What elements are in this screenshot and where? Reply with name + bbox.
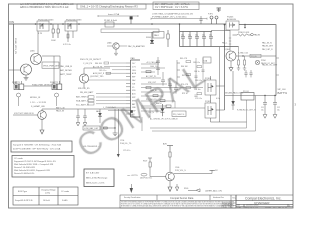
capacitor C_out1	[261, 96, 267, 119]
svg-text:PACIN: PACIN	[254, 34, 261, 37]
svg-text:10u: 10u	[195, 34, 198, 36]
watermark COMPAL outline	[70, 54, 213, 165]
svg-text:10u: 10u	[209, 34, 212, 36]
svg-text:R509: R509	[184, 188, 188, 190]
svg-text:Checked: Checked	[223, 204, 229, 206]
svg-text:Resist=10 4065x3 4%: Resist=10 4065x3 4%	[14, 172, 34, 175]
svg-text:PAD1: PAD1	[154, 34, 159, 37]
svg-text:CHARGER: CHARGER	[254, 201, 270, 205]
svg-text:Drawn: Drawn	[223, 206, 227, 208]
svg-text:PR_CHG 1%: PR_CHG 1%	[146, 99, 157, 101]
svg-text:D45/PCB_VOL: D45/PCB_VOL	[140, 177, 152, 179]
capacitor C_out2	[273, 96, 280, 119]
svg-text:-08- TM-EM-DR --: -08- TM-EM-DR --	[83, 146, 99, 148]
svg-text:AC_OK_P4: AC_OK_P4	[93, 65, 102, 68]
svg-text:BATT%: BATT%	[278, 91, 288, 95]
wire SRN row	[141, 107, 205, 109]
wire emitter down	[25, 75, 27, 78]
svg-text:R_PAC 0.05: R_PAC 0.05	[238, 51, 248, 54]
aux component rows center	[180, 58, 202, 100]
svg-text:17: 17	[275, 207, 277, 209]
svg-text:PACK_IN: PACK_IN	[56, 110, 65, 113]
box LOW BATT	[83, 126, 100, 130]
junction	[244, 27, 246, 29]
wire base left	[9, 69, 21, 71]
svg-text:C63 0.1u: C63 0.1u	[193, 62, 200, 64]
svg-text:PCB_VOL_%: PCB_VOL_%	[175, 170, 186, 172]
svg-text:LOSS: PADL-C/O-ADAPTER=0.05/0.: LOSS: PADL-C/O-ADAPTER=0.05/0.23/0.11V	[152, 13, 194, 16]
svg-text:CC mode: CC mode	[14, 158, 24, 160]
svg-text:PCA_LVL_7%: PCA_LVL_7%	[120, 142, 132, 145]
connector J battery 2	[50, 81, 62, 97]
svg-text:20.7: 20.7	[132, 63, 135, 65]
svg-text:VOUT NOT USED IN S5: VOUT NOT USED IN S5	[14, 113, 34, 115]
svg-text:twA=0.57·0.334/270/297.9 (KHz): twA=0.57·0.334/270/297.9 (KHz) PWM=1.2MH…	[20, 3, 74, 6]
secret data table	[120, 195, 236, 208]
wire	[53, 56, 55, 81]
svg-text:Tuesday, July 26, 2011: Tuesday, July 26, 2011	[243, 207, 258, 209]
svg-text:Size: Size	[237, 205, 240, 207]
diode D30	[156, 102, 164, 116]
wire	[41, 109, 43, 111]
svg-text:PR34: PR34	[261, 60, 266, 62]
ground	[24, 78, 29, 81]
ground hatch	[113, 133, 118, 136]
resistor vert 1	[237, 56, 240, 70]
svg-text:CC mode: CC mode	[61, 191, 69, 193]
resistor base divider	[143, 158, 152, 177]
junction	[244, 24, 246, 26]
resistor sense box	[241, 91, 254, 100]
resistor boxes row	[88, 96, 94, 98]
junction	[179, 23, 181, 25]
svg-text:Q24 PNP_TR5: Q24 PNP_TR5	[90, 76, 104, 78]
wire with arrow	[117, 109, 119, 154]
junction	[224, 46, 225, 47]
connector J battery 1	[12, 81, 24, 97]
wire down	[41, 119, 43, 130]
bracket measure 1	[98, 15, 138, 17]
resistor PR301	[233, 32, 261, 37]
svg-text:PR_CHG 1%: PR_CHG 1%	[173, 114, 184, 116]
box VR5X	[42, 62, 60, 68]
svg-text:R70 4.7K: R70 4.7K	[181, 84, 189, 86]
junction	[224, 24, 226, 26]
capacitor bank rails	[180, 32, 239, 47]
svg-text:Charging Voltage: Charging Voltage	[41, 189, 56, 192]
dc jack PJP1	[208, 8, 221, 24]
transistor Q306b	[21, 64, 32, 75]
fuse PF1	[104, 20, 117, 27]
BOM table	[13, 187, 78, 205]
note box GA6	[77, 4, 146, 9]
wire stub conn2	[56, 97, 58, 106]
ground arrow	[40, 130, 44, 134]
wire BATT rail	[225, 95, 276, 97]
svg-text:C_OK_P4: C_OK_P4	[83, 63, 93, 65]
approval boxes	[222, 203, 236, 208]
svg-text:Q3A5: Q3A5	[107, 42, 112, 45]
svg-text:SCL_BATT_B: SCL_BATT_B	[76, 103, 89, 106]
svg-text:PQ307: PQ307	[205, 101, 211, 103]
wire collector row	[236, 55, 276, 57]
svg-text:PAD_USB_M: PAD_USB_M	[60, 65, 72, 68]
wire base	[13, 114, 38, 116]
capacitor mini top	[199, 16, 202, 24]
wires into IC upper-left rows	[89, 62, 126, 80]
mosfet PQ2	[65, 18, 82, 31]
svg-text:BAT: BAT	[132, 103, 135, 106]
small caps column	[156, 57, 180, 94]
svg-text:R64 10K: R64 10K	[181, 66, 188, 68]
svg-text:BATT_TEMP: BATT_TEMP	[60, 73, 72, 76]
big region box outer	[152, 96, 256, 132]
svg-text:PR_05: PR_05	[251, 56, 257, 58]
svg-text:C11: C11	[261, 107, 264, 109]
capacitor PC1	[181, 32, 185, 47]
svg-text:SDA_BATT_B: SDA_BATT_B	[76, 99, 89, 102]
mosfet block right B	[205, 101, 216, 118]
wire gate down	[211, 30, 230, 51]
svg-text:4.7K 0.1u: 4.7K 0.1u	[63, 44, 71, 46]
junction	[274, 95, 275, 96]
svg-text:C79 4.7u: C79 4.7u	[123, 150, 130, 152]
svg-text:Sanyo/4 S 728/1998 : CH. 80%/: Sanyo/4 S 728/1998 : CH. 80%/Delay : 70±…	[13, 143, 61, 146]
svg-text:A3V: A3V	[163, 142, 167, 145]
svg-text:C72 10u: C72 10u	[194, 89, 200, 91]
transistor Q24 pnp	[79, 74, 104, 83]
svg-text:10u: 10u	[188, 34, 191, 36]
diode D31	[231, 71, 256, 111]
svg-text:PAC_L: PAC_L	[222, 41, 228, 44]
junction	[78, 23, 80, 25]
svg-text:twB=0.4·786/298/303.4 70KHz: twB=0.4·786/298/303.4 70KHz tRC=4.7K·0.1…	[20, 6, 69, 9]
junction	[50, 23, 52, 25]
right side labels	[146, 61, 159, 106]
wire emitter	[169, 181, 171, 187]
wire between fets	[211, 47, 247, 122]
svg-text:PJBATT2: PJBATT2	[50, 81, 58, 84]
ground arrow	[229, 68, 233, 71]
transistor Q31	[31, 105, 46, 119]
svg-text:PR301 3.01K: PR301 3.01K	[238, 32, 250, 34]
svg-text:AC_SET_PL: AC_SET_PL	[146, 75, 156, 78]
svg-text:C506: C506	[175, 167, 179, 169]
svg-text:S_04/BAT_LED: S_04/BAT_LED	[31, 105, 46, 108]
svg-text:PAC_DET_N: PAC_DET_N	[262, 48, 273, 51]
ground arrow	[168, 187, 172, 191]
junction	[264, 95, 265, 96]
svg-text:With Failsafe BOM: 1998 -- Co: With Failsafe BOM: 1998 -- Compal=5.328	[14, 163, 54, 166]
resistor to junction	[103, 127, 109, 129]
svg-text:100K: 100K	[51, 40, 56, 42]
svg-text:3.0A%: 3.0A%	[62, 199, 68, 202]
mosfet block right A	[205, 78, 216, 95]
svg-text:CHG_B2: CHG_B2	[150, 90, 157, 92]
notes box small	[11, 141, 72, 152]
battery rail	[42, 108, 130, 110]
transistor PQ304	[224, 49, 236, 61]
wire	[114, 109, 116, 128]
diode PD1	[146, 32, 154, 44]
svg-text:Resist=7.10 4567x328: Resist=7.10 4567x328	[14, 166, 36, 169]
title block	[236, 195, 293, 208]
svg-text:LOW_BAT_DET: LOW_BAT_DET	[84, 127, 99, 130]
note box OV/CV	[153, 2, 199, 10]
wire	[84, 68, 110, 74]
notes box CC mode	[12, 156, 74, 178]
svg-text:BAT_DET&B: BAT_DET&B	[60, 69, 72, 72]
node VIN	[9, 20, 14, 24]
junction	[35, 23, 37, 25]
svg-text:C704: C704	[120, 140, 124, 142]
big region box inner	[150, 100, 247, 128]
resistor PR21 divider	[51, 24, 59, 42]
junction	[114, 127, 115, 128]
svg-text:CV = 856*%mAh ; CV = 6.37%: CV = 856*%mAh ; CV = 6.37%	[155, 6, 189, 9]
svg-text:R507: R507	[143, 160, 147, 162]
svg-text:E7: 3 A 0.46V: E7: 3 A 0.46V	[86, 172, 100, 175]
svg-text:16.8±xV: 16.8±xV	[43, 200, 51, 202]
svg-text:Compal Electronics, Inc.: Compal Electronics, Inc.	[245, 196, 282, 200]
regulator box U5	[203, 57, 211, 63]
svg-text:R_PACIN_OC_DET_N: R_PACIN_OC_DET_N	[237, 108, 256, 111]
svg-text:Support=0.25 5V/2.5 4V/Charger: Support=0.25 5V/2.5 4V/Charger/S 5Vx5~3%	[14, 160, 56, 163]
wire VIN rail	[14, 23, 226, 25]
svg-text:C41 0.1u: C41 0.1u	[99, 70, 106, 72]
svg-text:With Failsafe BO-4095, Suppor: With Failsafe BO-4095, Support=5.328	[14, 169, 51, 172]
svg-text:Q305: Q305	[30, 51, 35, 53]
transistor Q_adp	[107, 42, 145, 56]
svg-text:Eng: Eng	[230, 206, 233, 208]
wire B+ drop	[239, 25, 276, 96]
svg-text:GA6_1 = 16~33 Charging/Dischar: GA6_1 = 16~33 Charging/Discharging Reaso…	[80, 5, 138, 9]
svg-text:PQ301 AO4433: PQ301 AO4433	[38, 18, 54, 21]
svg-text:AO4407A: AO4407A	[227, 18, 236, 21]
svg-text:MODEL_IN: MODEL_IN	[30, 97, 41, 99]
svg-text:AL_CHG/B2_LPC 4.7K S_CMB_B: AL_CHG/B2_LPC 4.7K S_CMB_B	[150, 117, 178, 120]
svg-text:PACIN_DET: PACIN_DET	[262, 44, 274, 47]
svg-text:PAD: PAD	[131, 57, 136, 60]
svg-text:10u: 10u	[202, 34, 205, 36]
charger IC U1	[131, 57, 141, 117]
wire gate drop 1	[37, 31, 39, 54]
svg-text:LATER_ADJ_ON: LATER_ADJ_ON	[205, 189, 222, 192]
svg-text:R61 4.7K: R61 4.7K	[180, 58, 188, 60]
wire	[83, 83, 85, 88]
resistor gate PQ2	[63, 31, 73, 46]
transistor Q50 npn	[166, 167, 187, 181]
svg-text:Sanyo/4S 4L/3P 3.8L: Sanyo/4S 4L/3P 3.8L	[15, 200, 33, 202]
ground arrow above table	[175, 187, 178, 191]
box label	[250, 54, 261, 57]
svg-text:C12: C12	[277, 107, 280, 109]
junction	[62, 23, 64, 25]
svg-text:BB D-4 85d Recharge: BB D-4 85d Recharge	[86, 177, 108, 180]
svg-text:4.7u: 4.7u	[216, 98, 220, 100]
svg-text:4L/3P*5.328/1998 : GP* 80%*9/1: 4L/3P*5.328/1998 : GP* 80%*9/12Q : 10*±1…	[13, 148, 61, 151]
cap pair on battery rail	[76, 109, 87, 126]
power flag B+	[130, 16, 133, 24]
svg-text:VIN: VIN	[9, 20, 14, 24]
wire stub conn1	[18, 97, 20, 106]
svg-text:ICM_OUT: ICM_OUT	[148, 82, 157, 84]
svg-text:tPLH/PADL-B/ADP_19V = 4.74/0.2: tPLH/PADL-B/ADP_19V = 4.74/0.23/xx	[152, 15, 187, 18]
svg-text:36: 36	[282, 207, 284, 209]
power flag on rail	[130, 110, 133, 113]
svg-text:PQ304: PQ304	[224, 49, 230, 51]
left drop wire	[13, 24, 15, 84]
svg-text:Rev: Rev	[232, 198, 235, 200]
svg-text:10u: 10u	[277, 110, 280, 112]
svg-text:BOM Type: BOM Type	[18, 191, 27, 193]
bracket measure 2	[151, 18, 207, 20]
caps row small	[244, 70, 252, 77]
connector pad box	[153, 32, 164, 39]
svg-text:PL301 6.8uH: PL301 6.8uH	[104, 20, 117, 22]
svg-text:PR_B1: PR_B1	[243, 91, 249, 93]
svg-text:C66 1u: C66 1u	[194, 71, 200, 73]
svg-text:PAC_IN_N: PAC_IN_N	[262, 41, 272, 44]
capacitor PC4	[202, 32, 206, 47]
svg-text:C75 0.1u: C75 0.1u	[195, 98, 202, 100]
net arrow LATER_ADJ_ON	[184, 188, 222, 192]
svg-text:4.7%: 4.7%	[132, 66, 136, 68]
svg-text:Hardware Rev: Hardware Rev	[213, 196, 224, 199]
capacitor bank side wires	[180, 24, 225, 110]
pad circle	[255, 60, 260, 65]
notes box right of CC	[84, 169, 114, 187]
svg-text:ICL: ICL	[132, 87, 135, 89]
capacitor PC2	[188, 32, 192, 47]
svg-text:Compal Secret Data: Compal Secret Data	[170, 196, 194, 200]
svg-text:-xx- .0377%: -xx- .0377%	[127, 175, 138, 177]
svg-text:R34 4.7K_R5_DETECT: R34 4.7K_R5_DETECT	[80, 59, 102, 61]
bus rect	[101, 29, 159, 32]
svg-text:4.7K: 4.7K	[38, 33, 43, 35]
svg-text:PQ302 AO4433: PQ302 AO4433	[66, 18, 82, 21]
diode 6A04	[96, 109, 102, 123]
legal paragraph	[121, 200, 235, 207]
svg-text:J. R. L. + 3.3 R.W: J. R. L. + 3.3 R.W	[30, 102, 46, 104]
svg-text:Security Classification: Security Classification	[124, 196, 141, 199]
wire collector right	[174, 170, 212, 173]
svg-text:BAT54: BAT54	[156, 102, 161, 105]
svg-text:PACIN_OC_DET: PACIN_OC_DET	[262, 63, 278, 66]
IC pin labels	[132, 63, 137, 116]
svg-text:L_CHG 3.3uH: L_CHG 3.3uH	[103, 107, 116, 109]
svg-text:ACIN_DET_R: ACIN_DET_R	[93, 72, 105, 75]
svg-text:6A04: 6A04	[96, 110, 100, 113]
junction	[151, 23, 153, 25]
svg-text:CLK_N: CLK_N	[148, 112, 154, 114]
ground arrow filled	[130, 188, 133, 193]
IC right side wires and parts	[141, 64, 203, 111]
svg-text:(±1%): (±1%)	[45, 192, 50, 194]
svg-text:REF: REF	[132, 77, 135, 79]
wire base	[150, 176, 166, 178]
svg-text:PGND_VPCL_PS: PGND_VPCL_PS	[14, 38, 16, 55]
resistor vertical	[169, 152, 171, 157]
junction	[242, 55, 243, 56]
svg-text:BAT_TEMP_R: BAT_TEMP_R	[76, 95, 90, 98]
wire side column	[42, 56, 60, 84]
svg-text:RB_05K_BATT: RB_05K_BATT	[80, 91, 94, 94]
mosfet PQ3	[226, 17, 239, 30]
wire emitter to ground	[230, 61, 232, 68]
wires into IC from left	[96, 94, 126, 111]
svg-text:VR5X_PWR_DET: VR5X_PWR_DET	[43, 65, 60, 67]
svg-text:3M_AB3_PACK_OC_L: 3M_AB3_PACK_OC_L	[225, 92, 243, 95]
svg-text:PQ306: PQ306	[205, 78, 211, 80]
svg-text:10u: 10u	[261, 110, 264, 112]
svg-text:R73 1K: R73 1K	[182, 93, 189, 95]
svg-text:10u: 10u	[181, 34, 184, 36]
svg-text:Imax 4.75A: Imax 4.75A	[108, 13, 120, 16]
resistor vert 2	[243, 56, 246, 70]
transistor Q305	[30, 51, 42, 65]
resistor box R40	[172, 111, 186, 116]
wire	[149, 108, 151, 118]
wires fets to right	[216, 86, 225, 110]
svg-text:PAC_IN_ADAPTER: PAC_IN_ADAPTER	[128, 45, 145, 48]
mosfet PQ1	[37, 18, 54, 35]
capacitor PC5	[209, 32, 213, 47]
svg-text:R35 10K_R5: R35 10K_R5	[78, 88, 90, 90]
svg-text:R44 10K: R44 10K	[95, 63, 103, 65]
resistor PR31	[167, 30, 169, 47]
power +3V T	[163, 142, 173, 150]
svg-text:PJBATT1: PJBATT1	[12, 81, 20, 84]
svg-text:BB B-mat/C +5.6%: BB B-mat/C +5.6%	[86, 182, 104, 185]
svg-text:CELL: CELL	[132, 70, 136, 72]
cluster small resistors center	[146, 71, 171, 108]
wire connecting connectors	[24, 85, 52, 87]
border frame	[9, 4, 294, 208]
capacitor PC3	[195, 32, 199, 47]
wire IC bottom drop	[141, 117, 143, 131]
IC pins left	[126, 63, 131, 114]
